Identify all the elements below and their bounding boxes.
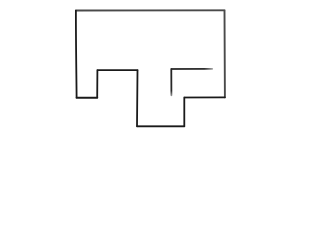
wire notch horizontal — [97, 69, 137, 71]
wire top edge — [76, 9, 225, 11]
wire right edge — [224, 10, 226, 97]
wire bottom horizontal — [137, 125, 184, 127]
wire inner horizontal — [171, 68, 212, 70]
wire step vertical — [183, 98, 185, 127]
inner line (open polyline) — [171, 69, 212, 95]
wire notch vertical — [96, 70, 98, 98]
wire inner vertical — [170, 69, 172, 95]
wire left edge — [75, 11, 78, 98]
outline polygon (hand-drawn block shape) — [76, 10, 225, 126]
wire mid-left vertical — [136, 70, 139, 126]
wire bottom-right horizontal — [184, 96, 225, 98]
wire bottom-left horizontal — [77, 97, 98, 99]
